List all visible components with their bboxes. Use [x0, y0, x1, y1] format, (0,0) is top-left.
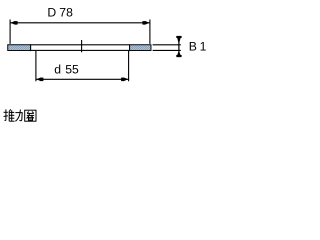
caption glyph quan — [25, 110, 36, 121]
d arrow left — [36, 77, 43, 81]
svg-text:B: B — [189, 40, 197, 54]
D extension line right — [149, 20, 151, 44]
caption glyph li — [15, 110, 22, 122]
svg-text:55: 55 — [65, 62, 79, 76]
d extension line left — [35, 51, 37, 81]
B extension line top — [153, 44, 181, 46]
washer outline — [8, 45, 151, 51]
svg-text:d: d — [54, 62, 61, 76]
B cap top — [176, 36, 181, 38]
D dimension line — [10, 22, 150, 24]
caption glyph tui — [4, 109, 15, 121]
D extension line left — [9, 20, 11, 44]
svg-text:D: D — [47, 6, 56, 20]
svg-text:78: 78 — [59, 6, 73, 20]
label B 1 — [189, 40, 207, 54]
d arrow right — [121, 77, 128, 81]
section divider left — [30, 44, 32, 51]
label D 78 — [47, 6, 73, 20]
B extension line bottom — [153, 49, 181, 51]
D arrow right — [142, 21, 149, 25]
B arrow up — [177, 51, 180, 55]
B arrow down — [177, 38, 180, 44]
section fill right — [130, 45, 150, 50]
center tick — [81, 40, 83, 52]
d dimension line — [36, 78, 129, 80]
d extension line right — [128, 51, 130, 81]
label d 55 — [54, 62, 79, 76]
section fill left — [8, 45, 30, 50]
section divider right — [129, 44, 131, 51]
D arrow left — [10, 21, 17, 25]
svg-text:1: 1 — [200, 40, 207, 54]
B dimension line — [178, 36, 180, 57]
B cap bottom — [176, 55, 181, 57]
